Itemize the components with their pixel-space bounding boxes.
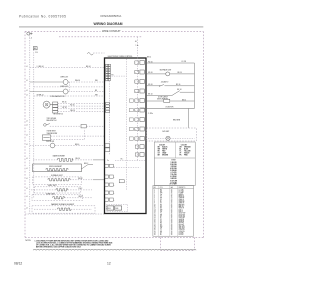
svg-text:OVEN VENT: OVEN VENT [47, 131, 56, 133]
control board outline U1 [105, 58, 147, 214]
wire conduit bottom dashed line [59, 36, 142, 38]
oven light 2 [30, 91, 63, 93]
svg-text:WH: WH [95, 80, 98, 82]
svg-text:7 BL-WH: 7 BL-WH [170, 174, 176, 176]
svg-text:1 4c: 1 4c [136, 45, 139, 47]
svg-text:COLOR: COLOR [159, 144, 166, 146]
svg-text:BK-12: BK-12 [84, 163, 88, 165]
bus wire N vertical [33, 50, 35, 198]
ground symbol G1 [27, 32, 30, 35]
svg-text:L4: L4 [26, 94, 28, 96]
title block tab below table [160, 237, 162, 250]
inner dashed wire [112, 75, 127, 77]
wire row L1 to control [30, 67, 105, 69]
svg-text:L4: L4 [26, 66, 28, 68]
left terminal cluster P1 [106, 64, 108, 66]
svg-text:BR-12: BR-12 [78, 178, 82, 180]
svg-text:TWO SPEED: TWO SPEED [47, 118, 57, 120]
svg-text:WHITE: WHITE [162, 149, 167, 151]
svg-text:1 B: 1 B [35, 52, 37, 54]
double line relay K7 [106, 204, 128, 211]
svg-text:08/12: 08/12 [14, 261, 22, 265]
page dashed border right [202, 31, 204, 238]
wire L1 feed [147, 62, 195, 64]
svg-text:RD 10: RD 10 [148, 61, 152, 63]
oven lamp [148, 137, 166, 139]
page dashed border top (gap for WIRE CONDUIT label) [25, 30, 101, 32]
svg-text:BK 16 WH 16: BK 16 WH 16 [54, 113, 63, 115]
wire from broil element [81, 165, 88, 169]
svg-text:BK 14: BK 14 [177, 89, 181, 91]
svg-text:VT: VT [179, 153, 181, 155]
neutral wire row [34, 95, 105, 97]
svg-text:L4: L4 [26, 158, 28, 160]
wire thermal fuse to control [50, 125, 81, 127]
svg-text:12: 12 [107, 261, 111, 265]
extra relay box row3 [119, 180, 124, 183]
wire conduit drop [136, 37, 138, 161]
svg-text:L1 BK-14: L1 BK-14 [37, 66, 44, 68]
svg-text:NOTE:: NOTE: [25, 240, 31, 242]
svg-text:L4: L4 [26, 134, 28, 136]
page dashed border bottom [25, 236, 203, 238]
wire run table [153, 186, 194, 237]
svg-text:Publication No. 09957905: Publication No. 09957905 [19, 14, 66, 18]
page dashed border left [24, 31, 26, 237]
broil element box [33, 164, 82, 172]
svg-text:RED BRN: RED BRN [173, 120, 181, 122]
svg-text:1 BK-RD: 1 BK-RD [170, 162, 177, 164]
svg-text:L4: L4 [26, 178, 28, 180]
svg-text:VIOLET: VIOLET [184, 153, 190, 155]
svg-text:L4: L4 [26, 120, 28, 122]
left terminal cluster P2 fan [106, 102, 109, 104]
svg-text:BL: BL [179, 149, 181, 151]
inner dashed wires lower [115, 159, 146, 161]
svg-text:DLB: DLB [108, 208, 111, 210]
svg-text:OR-12: OR-12 [78, 196, 83, 198]
vent limit box [81, 125, 86, 128]
svg-text:WH: WH [95, 94, 98, 96]
svg-text:L4: L4 [26, 168, 28, 170]
svg-text:WIRING DIAGRAM: WIRING DIAGRAM [94, 22, 123, 26]
svg-text:YL-12: YL-12 [78, 188, 82, 190]
svg-text:BK c: BK c [121, 159, 124, 161]
svg-text:9 BR-RD: 9 BR-RD [170, 178, 177, 180]
svg-text:BROWN: BROWN [162, 155, 168, 157]
svg-text:L4: L4 [26, 144, 28, 146]
header rule [19, 26, 203, 28]
thermostat wires [51, 135, 105, 137]
circle link vertical [69, 82, 71, 92]
svg-text:P4: P4 [112, 74, 114, 76]
fan terminal boxes [53, 102, 58, 105]
inner dashed partition vertical 1 [109, 81, 111, 155]
oven lamp box [146, 128, 196, 141]
svg-text:BROIL ELEMENT: BROIL ELEMENT [49, 166, 62, 168]
svg-text:WIRE CONDUIT: WIRE CONDUIT [102, 30, 121, 33]
svg-text:3 RD-BK: 3 RD-BK [170, 166, 177, 168]
svg-text:N WH-14: N WH-14 [37, 94, 44, 96]
svg-text:BK-14: BK-14 [86, 66, 91, 68]
svg-text:DLB: DLB [115, 208, 118, 210]
svg-text:WH-16: WH-16 [75, 80, 80, 82]
svg-text:L4: L4 [26, 80, 28, 82]
svg-text:2 BK-WH: 2 BK-WH [170, 164, 176, 166]
svg-text:C JP6c: C JP6c [148, 113, 153, 115]
fan wires to control [58, 102, 105, 104]
right bus vertical [193, 63, 195, 109]
svg-text:RD-14: RD-14 [76, 158, 81, 160]
svg-text:SURF. UNIT: SURF. UNIT [46, 193, 55, 195]
interior boxes top [105, 144, 110, 147]
color code legend box [154, 142, 195, 186]
svg-text:GY: GY [158, 153, 160, 155]
bus wire L1 vertical [29, 35, 31, 214]
thermostat symbol [42, 135, 50, 140]
relay bank K1-K5 [105, 164, 109, 167]
svg-text:OVEN LGT: OVEN LGT [60, 86, 68, 88]
svg-text:DOOR SW: DOOR SW [46, 141, 54, 143]
svg-text:RD 10: RD 10 [148, 72, 152, 74]
mid dashed row [34, 86, 105, 88]
svg-text:BK 14: BK 14 [147, 56, 151, 58]
inner dashed partition vertical 2 [125, 59, 127, 190]
svg-text:OVEN LGT: OVEN LGT [60, 76, 68, 78]
svg-text:WH 16: WH 16 [70, 110, 75, 112]
svg-text:18: 18 [171, 234, 173, 236]
svg-text:8 OR-BK: 8 OR-BK [170, 176, 177, 178]
svg-text:WH: WH [158, 149, 161, 151]
ground dashed wire bottom [25, 213, 104, 215]
svg-text:BK-16: BK-16 [75, 144, 79, 146]
svg-text:BK 16: BK 16 [62, 102, 66, 104]
svg-text:RD 16: RD 16 [70, 104, 74, 106]
thermal fuse above block [87, 53, 93, 55]
svg-text:L4: L4 [26, 196, 28, 198]
wavy tear line [33, 248, 196, 251]
svg-text:2x: 2x [107, 160, 109, 162]
svg-text:BLUE: BLUE [184, 149, 188, 151]
svg-text:L4: L4 [26, 90, 28, 92]
svg-text:BK 14: BK 14 [182, 99, 186, 101]
svg-text:FROM TO: FROM TO [179, 187, 186, 189]
right terminal rows lower [135, 145, 139, 148]
svg-text:6 YL-RD: 6 YL-RD [171, 172, 178, 174]
right terminal rows with connector J1 [135, 61, 139, 64]
svg-text:L4: L4 [26, 188, 28, 190]
svg-text:OVN LMP: OVN LMP [162, 131, 169, 133]
svg-text:RD 10: RD 10 [178, 72, 182, 74]
svg-text:RD 10: RD 10 [176, 84, 180, 86]
svg-text:YL: YL [179, 151, 181, 153]
svg-text:L4: L4 [26, 207, 28, 209]
breaker symbol B1 [33, 47, 37, 50]
svg-text:YELLOW: YELLOW [184, 151, 191, 153]
svg-text:10 GY-WH: 10 GY-WH [170, 180, 177, 182]
svg-text:LK MTR: LK MTR [179, 234, 184, 236]
svg-text:GY 16: GY 16 [62, 107, 66, 109]
inner dashed partition horizontal [105, 80, 110, 82]
svg-text:5 WH-BK: 5 WH-BK [170, 170, 177, 172]
svg-text:COL: COL [160, 187, 163, 189]
svg-text:COLOR: COLOR [181, 144, 188, 146]
svg-text:BL: BL [160, 234, 162, 236]
thermal fuse symbol [44, 124, 47, 127]
svg-text:L4: L4 [26, 125, 28, 127]
svg-text:FPES3085PFA: FPES3085PFA [101, 14, 123, 18]
legend divider [154, 157, 195, 159]
